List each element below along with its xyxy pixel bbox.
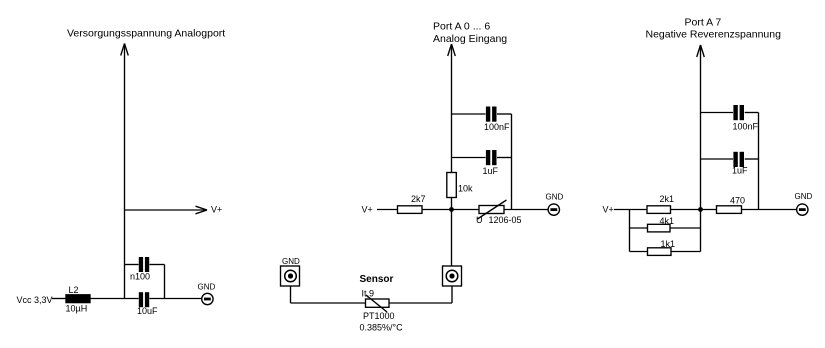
svg-text:2k7: 2k7: [411, 194, 426, 204]
junction dot (middle): [449, 207, 454, 212]
svg-text:Port A 0 ... 6: Port A 0 ... 6: [433, 21, 490, 33]
wire main vertical (right section): [700, 45, 702, 252]
net arrow up (Port A 0..6): [448, 44, 456, 56]
wire 1k1 branch: [630, 251, 648, 253]
wire cap branch 2 (right section): [701, 158, 734, 160]
svg-text:100nF: 100nF: [733, 122, 759, 132]
wire L2 to junction: [90, 298, 139, 300]
junction dot (right): [698, 207, 703, 212]
capacitor 100nF (middle): [486, 107, 497, 122]
wire junction to GND (with cap gap): [150, 298, 202, 300]
svg-text:Port A 7: Port A 7: [685, 17, 722, 29]
wire cap branch top (right section): [701, 112, 734, 114]
wire varistor to GND: [504, 209, 548, 211]
svg-text:Versorgungsspannung Analogport: Versorgungsspannung Analogport: [67, 28, 225, 40]
wire sensor bottom: [291, 302, 366, 304]
ground symbol GND (left section): [202, 293, 213, 304]
svg-text:1k1: 1k1: [661, 239, 676, 249]
wire Vcc to L2: [52, 298, 66, 300]
capacitor n100: [139, 257, 149, 272]
wire V+ to 2k7: [377, 209, 398, 211]
resistor 1k1: [648, 248, 672, 256]
svg-text:GND: GND: [546, 193, 564, 202]
svg-text:1206-05: 1206-05: [489, 215, 522, 225]
varistor 1206-05: [478, 200, 507, 219]
svg-text:0.385%/°C: 0.385%/°C: [360, 323, 404, 333]
wire 2k7 to varistor: [422, 209, 479, 211]
svg-text:1uF: 1uF: [483, 166, 499, 176]
wire 4k1 branch: [630, 227, 648, 229]
wire parallel left vertical: [629, 210, 631, 252]
svg-text:V+: V+: [362, 205, 373, 215]
resistor 2k1: [647, 206, 671, 214]
svg-text:Sensor: Sensor: [360, 274, 394, 285]
wire 2k1 to junction: [671, 209, 717, 211]
svg-text:V+: V+: [603, 205, 614, 215]
svg-text:Vcc 3,3V: Vcc 3,3V: [17, 295, 53, 305]
resistor 470: [717, 206, 742, 214]
wire cap branch 2 (middle): [452, 157, 486, 159]
resistor 2k7: [398, 206, 423, 214]
connector pad (right, to sensor): [443, 266, 462, 286]
svg-text:Negative Reverenzspannung: Negative Reverenzspannung: [646, 29, 782, 41]
section title: Port A 0 ... 6 / Analog Eingang: [433, 21, 507, 46]
svg-text:470: 470: [730, 196, 745, 206]
capacitor 1uF (middle): [486, 150, 497, 165]
svg-text:100nF: 100nF: [484, 122, 510, 132]
svg-text:2k1: 2k1: [660, 194, 675, 204]
wire cap branch top (middle): [452, 113, 486, 115]
svg-text:10uF: 10uF: [137, 306, 158, 316]
svg-text:GND: GND: [282, 257, 300, 266]
svg-text:1uF: 1uF: [732, 166, 748, 176]
svg-text:4k1: 4k1: [660, 216, 675, 226]
connector pad (left, GND side): [281, 266, 300, 286]
wire connector down (left): [290, 286, 292, 303]
svg-text:PT1000: PT1000: [363, 311, 395, 321]
capacitor 1uF (right): [733, 152, 744, 167]
wire main vertical (left section): [124, 44, 126, 299]
wire main vertical (middle section): [451, 44, 453, 266]
thermistor PT1000: [366, 295, 390, 312]
svg-text:Analog Eingang: Analog Eingang: [433, 33, 507, 45]
wire V+ to left node: [614, 209, 647, 211]
net arrow V+ (right): [125, 206, 208, 214]
net arrow up (Port A 7): [697, 45, 705, 57]
inductor L2: [66, 295, 90, 303]
net arrow up (Versorgungsspannung): [121, 44, 129, 56]
wire cap branch right vertical: [164, 265, 166, 299]
ground symbol GND (middle): [548, 204, 559, 215]
svg-text:n100: n100: [130, 272, 150, 282]
svg-text:L2: L2: [69, 285, 79, 295]
svg-text:GND: GND: [198, 283, 216, 292]
resistor 10k (vertical): [447, 173, 457, 198]
wire cap right vertical (right section): [758, 113, 760, 210]
ground symbol GND (right): [797, 204, 808, 215]
wire cap branch top (left section): [125, 264, 139, 266]
section title: Port A 7 / Negative Reverenzspannung: [646, 17, 782, 41]
svg-text:V+: V+: [211, 205, 222, 215]
wire 470 to GND: [742, 209, 797, 211]
wire connector down: [451, 286, 453, 303]
svg-text:GND: GND: [795, 192, 813, 201]
svg-text:It,9: It,9: [362, 289, 375, 299]
svg-text:U: U: [476, 215, 483, 225]
capacitor 100nF (right): [733, 105, 744, 120]
resistor 4k1: [648, 224, 671, 232]
capacitor 10uF: [139, 292, 149, 307]
wire cap right vertical (middle): [511, 114, 513, 210]
svg-text:10k: 10k: [458, 184, 473, 194]
svg-text:10µH: 10µH: [66, 304, 88, 314]
